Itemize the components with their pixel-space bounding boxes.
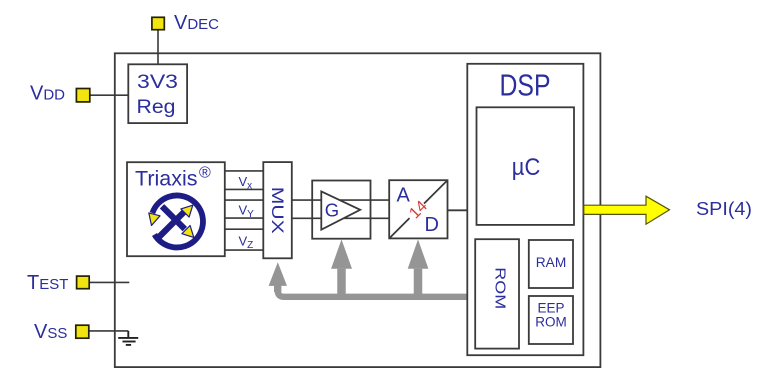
box EEP ROM <box>529 296 573 344</box>
wire Vx pair bottom <box>225 188 264 190</box>
wire Vz pair top <box>225 228 264 230</box>
outer chip box <box>115 53 601 367</box>
svg-text:A: A <box>397 184 411 206</box>
svg-text:VY: VY <box>239 203 255 221</box>
Triaxis logo bar down-right <box>162 206 185 229</box>
pin VDD <box>76 89 89 102</box>
gray bus bar with corner <box>278 283 468 297</box>
svg-text:ROM: ROM <box>492 267 509 309</box>
gray arrowhead to MUX <box>269 262 287 286</box>
pin VDEC <box>152 17 164 29</box>
gray arrow shaft to AD <box>414 269 423 297</box>
box DSP <box>467 64 583 355</box>
wire VSS to ground <box>89 330 129 332</box>
svg-text:Reg: Reg <box>137 96 176 118</box>
pin TEST <box>77 276 90 289</box>
wire Vz pair bottom <box>225 249 264 251</box>
Triaxis logo arrowhead up-right <box>181 205 193 217</box>
gray arrow shaft to MUX <box>274 284 281 292</box>
svg-text:EEP: EEP <box>537 301 564 316</box>
box Triaxis <box>127 162 225 256</box>
svg-text:RAM: RAM <box>536 255 567 270</box>
amplifier triangle <box>321 191 360 229</box>
wire VDEC to 3V3 Reg <box>157 30 159 65</box>
box MUX <box>263 162 292 258</box>
wire AD to DSP <box>448 209 468 211</box>
svg-text:Vx: Vx <box>239 174 253 192</box>
svg-text:MUX: MUX <box>268 187 286 234</box>
svg-text:3V3: 3V3 <box>137 71 178 93</box>
svg-text:VZ: VZ <box>239 234 254 252</box>
svg-text:D: D <box>425 214 439 236</box>
box 3V3 Reg <box>128 64 187 123</box>
svg-text:TEST: TEST <box>27 272 68 294</box>
svg-text:ROM: ROM <box>535 315 567 330</box>
gray arrowhead to AD <box>408 239 429 268</box>
svg-text:VDD: VDD <box>30 83 65 105</box>
svg-text:Triaxis: Triaxis <box>135 166 198 190</box>
wire Vy pair bottom <box>225 217 264 219</box>
svg-text:DSP: DSP <box>500 67 551 102</box>
wire MUX to G to AD lower <box>292 217 389 219</box>
wire MUX to G to AD upper <box>292 199 389 201</box>
ground <box>118 331 138 345</box>
AD diagonal lower segment <box>390 218 410 238</box>
box AD converter <box>389 180 447 238</box>
SPI yellow arrow <box>584 196 670 224</box>
Triaxis logo arrowhead down-right <box>182 226 194 238</box>
box ROM <box>475 239 519 348</box>
svg-text:VSS: VSS <box>34 321 67 343</box>
wire VDD to 3V3 Reg <box>90 94 129 96</box>
svg-text:®: ® <box>199 165 211 182</box>
wire TEST stub <box>89 281 129 283</box>
svg-text:VDEC: VDEC <box>174 12 219 34</box>
svg-text:µC: µC <box>512 154 541 181</box>
gray arrowhead to G <box>331 239 352 268</box>
pin VSS <box>76 325 89 338</box>
svg-text:SPI(4): SPI(4) <box>696 198 752 219</box>
box G amplifier <box>312 181 370 239</box>
box RAM <box>529 240 573 288</box>
box uC <box>477 107 575 225</box>
gray arrow shaft to G <box>337 269 346 297</box>
Triaxis logo ring <box>152 195 203 247</box>
Triaxis logo bar up-right <box>159 212 184 237</box>
svg-text:G: G <box>325 199 339 220</box>
wire Vx pair top <box>225 170 264 172</box>
AD diagonal upper segment <box>424 181 447 204</box>
Triaxis logo ring arrowhead <box>149 213 160 226</box>
wire Vy pair top <box>225 199 264 201</box>
